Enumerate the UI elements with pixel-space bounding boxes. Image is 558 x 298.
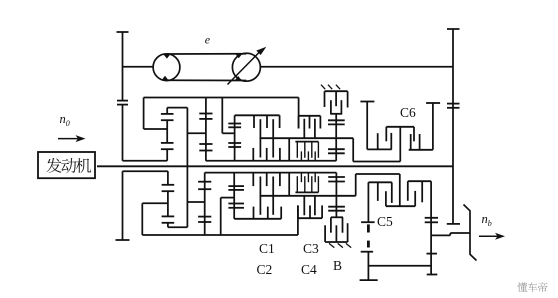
B lower outer teeth: [324, 225, 326, 242]
gear column x167 bottom: [167, 171, 169, 185]
B outer teeth: [324, 91, 326, 107]
rung V188-V205: [187, 201, 204, 203]
C5 center stem: [399, 174, 401, 206]
B inner teeth and bar: [330, 100, 332, 114]
C3 hub teeth: [303, 119, 305, 139]
C5 right hanging teeth: [407, 181, 409, 201]
C6 left post with T cap: [360, 101, 374, 103]
clutch C1 drum bar: [235, 114, 280, 116]
C6 right post with T cap: [426, 102, 440, 104]
gear column x205 bottom: [204, 173, 206, 235]
gear column x234 bottom: [233, 173, 235, 219]
B stem with gear caps: [335, 114, 337, 161]
C1 lower drum teeth: [253, 207, 255, 219]
through vertical V188: [186, 108, 188, 228]
output idler gear: [427, 253, 438, 255]
clutch C3 drum bar: [299, 115, 321, 117]
B lower inner bar and teeth: [331, 216, 343, 218]
wire: belt shaft right segment: [260, 66, 453, 68]
C6 center stem: [399, 127, 401, 162]
output arrow: [479, 235, 500, 237]
B housing hatch bottom: [329, 243, 334, 247]
belt top run: [167, 53, 247, 55]
hub bar drop to sleeve: [288, 138, 290, 161]
B lower outer bar: [325, 241, 348, 243]
belt bottom run: [167, 79, 247, 81]
output side right vertical shaft: [452, 29, 454, 224]
C3 lower drum bar: [298, 217, 322, 219]
right shaft lower bearing T: [447, 223, 460, 225]
gear column x206 top: [205, 98, 207, 161]
svg-text:n0: n0: [60, 112, 70, 128]
C6 left rising teeth: [377, 133, 379, 149]
wire: left shaft to gear column top: [123, 160, 168, 162]
svg-text:C1: C1: [259, 241, 275, 256]
gear column x234 top: [234, 115, 236, 161]
bottom frame link: [142, 234, 298, 236]
brake B outer bar: [325, 90, 348, 92]
wire to output gear: [431, 234, 450, 236]
clutch C2 teeth from sleeve: [252, 148, 254, 161]
brake B housing hatch top: [321, 85, 325, 90]
svg-text:C4: C4: [301, 262, 317, 277]
svg-text:B: B: [333, 258, 342, 273]
wire: left shaft to gear column bottom: [123, 170, 168, 172]
gear caps lower: [161, 142, 174, 144]
C1 hub bar link to C3 hub: [260, 137, 353, 139]
frame drop into C3 drum: [298, 98, 300, 129]
riser from bottom frame to V234: [220, 198, 222, 235]
belt wedge marks: [163, 54, 171, 59]
C1 lower drum bar: [234, 218, 281, 220]
C2 lower teeth from sleeve: [252, 173, 254, 187]
C6 center drum bar: [386, 126, 414, 128]
C4 lower teeth from sleeve: [300, 173, 302, 183]
left shaft lower section with bearing T: [122, 171, 124, 240]
C6 center drum teeth: [385, 127, 387, 142]
sleeve shaft lower line: [205, 172, 337, 174]
C4 lower drum bar: [295, 191, 318, 193]
C6 right rising teeth: [410, 134, 412, 150]
clutch C4 drum bar: [295, 141, 318, 143]
lower hub bar riser to sleeve: [288, 173, 290, 196]
C5 right post bar: [408, 180, 431, 182]
C5 right post to gear caps: [430, 181, 432, 274]
coupling bars on right shaft: [447, 103, 460, 105]
step link down to C6 hub: [352, 138, 354, 161]
C1/C2 hub verticals: [259, 119, 261, 157]
CVT primary pulley: [153, 54, 180, 81]
svg-text:e: e: [205, 33, 211, 47]
step link up to C5 hub: [355, 174, 357, 196]
C5 center drum teeth: [385, 191, 387, 206]
C5 left post caps and dashed link: [367, 182, 369, 222]
wire to V188 bottom: [168, 226, 188, 228]
sleeve shaft upper line: [206, 160, 336, 162]
CVT secondary pulley (variable): [232, 53, 260, 81]
engine label 发动机: [47, 158, 62, 173]
C1 lower hub bar link to C4 hub: [260, 195, 355, 197]
bottom frame riser into C3 lower drum: [297, 205, 299, 235]
gear caps upper: [161, 113, 174, 115]
wire: lower countershaft: [368, 265, 431, 267]
C3 lower drum teeth: [297, 205, 299, 218]
C4 drum teeth: [296, 142, 298, 158]
C1/C2 lower hub verticals: [259, 177, 261, 215]
coupling bars on left shaft: [117, 100, 128, 102]
drop from top frame to V234: [221, 98, 223, 134]
C4 teeth from sleeve: [300, 151, 302, 160]
C5 center drum bar: [386, 205, 415, 207]
output gear hooked line: [464, 205, 477, 261]
C5 left post bar: [368, 181, 391, 183]
input shaft left vertical: [122, 32, 124, 100]
watermark: [517, 282, 527, 292]
C5 left hanging teeth: [377, 182, 379, 201]
input arrow: [58, 138, 79, 140]
rung V188-V206: [187, 132, 206, 134]
svg-text:C2: C2: [257, 262, 273, 277]
C3 lower hub teeth: [303, 196, 305, 216]
top frame link: [144, 97, 299, 99]
engine box: [38, 152, 95, 178]
svg-text:C5: C5: [377, 214, 393, 229]
wire: belt shaft left segment: [123, 66, 154, 68]
B lower stem with gear caps: [335, 173, 337, 218]
svg-text:C3: C3: [303, 241, 319, 256]
C1 drum teeth: [253, 115, 255, 128]
svg-text:C6: C6: [400, 105, 416, 120]
C4 lower drum teeth: [296, 176, 298, 192]
C3 drum teeth: [298, 116, 300, 129]
svg-text:nb: nb: [482, 212, 492, 228]
variability arrow through secondary pulley: [228, 51, 261, 85]
gear column x167 top link: [167, 107, 187, 109]
main input shaft line: [97, 165, 453, 167]
